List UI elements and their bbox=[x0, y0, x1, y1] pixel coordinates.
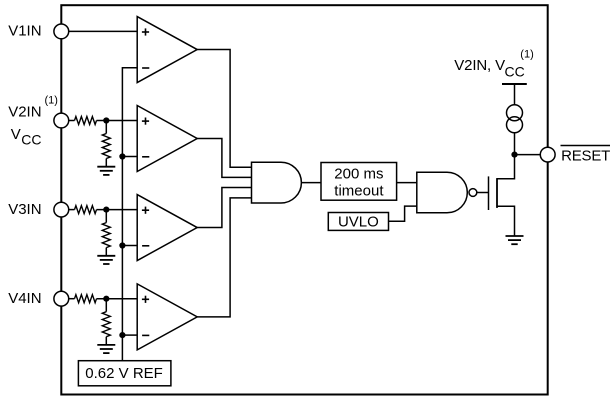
wire power bar to current source bbox=[514, 84, 516, 105]
svg-text:RESET: RESET bbox=[561, 148, 610, 165]
wire UVLO to NAND input 2 bbox=[389, 206, 417, 221]
label VCC (pin) bbox=[11, 126, 42, 148]
node: divider tap junction V3 bbox=[103, 207, 109, 213]
svg-text:V4IN: V4IN bbox=[8, 290, 41, 307]
ground (divider 4) bbox=[97, 345, 115, 353]
AND gate U5 bbox=[252, 162, 302, 203]
svg-text:UVLO: UVLO bbox=[338, 214, 379, 231]
node: ref rail junction at U3 bbox=[119, 242, 125, 248]
node: ref rail junction at U4 bbox=[119, 332, 125, 338]
svg-text:V1IN: V1IN bbox=[8, 23, 41, 40]
wire U3 output to AND gate input 3 bbox=[197, 188, 251, 228]
pin V4IN bbox=[54, 291, 69, 306]
resistor R2b (divider lower leg to ground) bbox=[102, 210, 110, 256]
svg-text:timeout: timeout bbox=[334, 182, 384, 199]
svg-text:0.62 V REF: 0.62 V REF bbox=[85, 365, 163, 382]
wire U4 output to AND gate input 4 bbox=[197, 198, 251, 317]
power rail V2IN/VCC bar bbox=[502, 83, 527, 85]
svg-text:V2IN: V2IN bbox=[8, 103, 41, 120]
label V2IN, VCC (1) at current source bbox=[454, 49, 533, 80]
wire current source to drain node bbox=[514, 133, 516, 155]
node: drain / RESET junction bbox=[511, 152, 517, 158]
block: 0.62 V REF bbox=[78, 361, 170, 386]
wire ref rail to U4 - input bbox=[122, 334, 137, 336]
ground (divider 3) bbox=[97, 256, 115, 264]
svg-text:CC: CC bbox=[21, 132, 41, 148]
resistor R3b (divider lower leg to ground) bbox=[102, 299, 110, 345]
op-amp comparator U1 bbox=[137, 17, 197, 83]
wire V1IN pin to U1 + input bbox=[61, 30, 137, 32]
svg-text:V3IN: V3IN bbox=[8, 201, 41, 218]
wire ref rail to U2 - input bbox=[122, 156, 137, 158]
IC boundary rectangle bbox=[61, 5, 547, 394]
label V2IN with superscript (1) bbox=[8, 95, 58, 121]
wire timeout block to NAND input 1 bbox=[397, 182, 417, 184]
svg-text:V: V bbox=[11, 126, 21, 143]
op-amp comparator U3 bbox=[137, 195, 197, 261]
node: divider tap junction V2 bbox=[103, 117, 109, 123]
svg-text:200 ms: 200 ms bbox=[334, 166, 383, 183]
resistor R1b (divider lower leg to ground) bbox=[102, 121, 110, 167]
svg-text:(1): (1) bbox=[520, 49, 533, 61]
wire ref rail to U3 - input bbox=[122, 245, 137, 247]
svg-text:(1): (1) bbox=[45, 95, 58, 107]
current source I1 (two circles) bbox=[507, 105, 523, 133]
wire AND output to timeout block bbox=[301, 182, 321, 184]
pin V3IN bbox=[54, 202, 69, 217]
ground (MOSFET source) bbox=[506, 236, 524, 244]
transistor Q1 (open-drain NMOS) bbox=[489, 158, 515, 237]
pin RESET bbox=[540, 147, 555, 162]
resistor R3a (series from V4IN pin) bbox=[61, 295, 137, 303]
pin V1IN bbox=[54, 24, 69, 39]
wire drain node to RESET pin bbox=[515, 154, 541, 156]
wire NAND output to MOSFET gate bbox=[477, 192, 489, 194]
pin V2IN bbox=[54, 113, 69, 128]
label RESET with overline bbox=[561, 146, 611, 165]
block: 200 ms timeout bbox=[321, 163, 397, 201]
block: UVLO bbox=[328, 213, 388, 231]
node: ref rail junction at U2 bbox=[119, 153, 125, 159]
node: divider tap junction V4 bbox=[103, 296, 109, 302]
resistor R2a (series from V3IN pin) bbox=[61, 206, 137, 214]
op-amp comparator U2 bbox=[137, 106, 197, 172]
svg-text:CC: CC bbox=[505, 64, 525, 80]
op-amp comparator U4 bbox=[137, 284, 197, 350]
svg-text:V2IN, V: V2IN, V bbox=[454, 57, 505, 74]
ground (divider 2) bbox=[97, 167, 115, 175]
NAND gate U6 bbox=[417, 172, 477, 213]
wire U2 output to AND gate input 2 bbox=[197, 139, 251, 178]
wire 0.62V reference rail (vertical) bbox=[122, 68, 137, 361]
resistor R1a (series from V2IN pin) bbox=[61, 117, 137, 125]
wire U1 output to AND gate input 1 bbox=[197, 50, 251, 168]
